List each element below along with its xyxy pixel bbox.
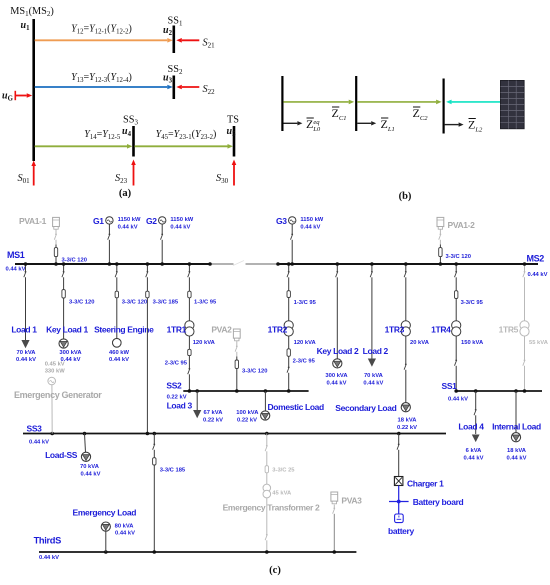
svg-text:0.44 kV: 0.44 kV [29,439,49,445]
svg-text:MS1: MS1 [7,250,25,260]
svg-text:Load 1: Load 1 [11,325,37,335]
svg-text:Steering Engine: Steering Engine [94,325,154,335]
svg-text:Key Load 1: Key Load 1 [46,325,88,335]
svg-text:3-3/C 185: 3-3/C 185 [153,300,179,306]
svg-text:120 kVA: 120 kVA [193,340,216,346]
svg-text:18 kVA: 18 kVA [398,417,418,423]
svg-text:120 kVA: 120 kVA [294,340,317,346]
svg-text:70 kVA: 70 kVA [364,373,384,379]
svg-text:Load 2: Load 2 [363,346,389,356]
svg-text:G3: G3 [276,216,287,226]
svg-text:100 kVA: 100 kVA [236,410,259,416]
svg-text:70 kVA: 70 kVA [80,464,100,470]
svg-text:0.44 kV: 0.44 kV [448,397,468,403]
svg-text:ThirdS: ThirdS [34,536,61,546]
svg-text:ZeqL0: ZeqL0 [306,117,321,133]
svg-text:battery: battery [388,526,415,536]
svg-text:Internal Load: Internal Load [492,422,541,432]
svg-text:1150 kW: 1150 kW [170,217,193,223]
svg-text:45 kVA: 45 kVA [272,491,292,497]
svg-text:SS2: SS2 [166,381,182,391]
svg-text:0.44 kV: 0.44 kV [327,380,347,386]
svg-text:0.44 kV: 0.44 kV [300,225,320,231]
svg-text:Load 4: Load 4 [458,422,484,432]
svg-text:Secondary Load: Secondary Load [335,403,396,413]
svg-text:0.44 kV: 0.44 kV [507,455,527,461]
svg-text:Emergency Generator: Emergency Generator [14,390,102,400]
svg-text:3-3/C 120: 3-3/C 120 [69,300,94,306]
svg-text:20 kVA: 20 kVA [410,340,430,346]
svg-text:PVA3: PVA3 [341,496,362,506]
svg-text:1TR4: 1TR4 [431,325,451,335]
svg-text:Key Load 2: Key Load 2 [317,346,359,356]
svg-text:0.44 kV: 0.44 kV [109,357,129,363]
svg-text:3-3/C 120: 3-3/C 120 [242,369,267,375]
svg-text:Battery board: Battery board [413,497,464,507]
svg-text:1TR5: 1TR5 [499,325,519,335]
svg-text:2-3/C 95: 2-3/C 95 [165,361,188,367]
svg-text:(a): (a) [119,188,132,199]
svg-text:Emergency Load: Emergency Load [73,507,137,517]
svg-text:3-3/C 120: 3-3/C 120 [62,258,87,264]
svg-text:460 kW: 460 kW [109,350,130,356]
svg-text:G2: G2 [146,216,157,226]
svg-text:1-3/C 95: 1-3/C 95 [294,300,317,306]
svg-text:1TR3: 1TR3 [385,325,405,335]
svg-text:1-3/C 95: 1-3/C 95 [194,300,217,306]
svg-text:1150 kW: 1150 kW [300,217,323,223]
svg-text:300 kVA: 300 kVA [325,373,348,379]
svg-text:TS: TS [227,115,239,126]
svg-text:3-3/C 95: 3-3/C 95 [461,300,484,306]
svg-text:18 kVA: 18 kVA [507,448,527,454]
svg-text:(c): (c) [269,565,281,576]
svg-text:0.44 kV: 0.44 kV [363,380,383,386]
svg-text:Domestic Load: Domestic Load [268,402,325,412]
svg-text:0.44 kV: 0.44 kV [16,357,36,363]
svg-text:MS2: MS2 [527,254,545,264]
svg-text:PVA2: PVA2 [211,325,232,335]
svg-text:SS3: SS3 [27,424,43,434]
svg-text:0.44 kV: 0.44 kV [464,455,484,461]
svg-text:2-3/C 95: 2-3/C 95 [293,359,316,365]
svg-text:6 kVA: 6 kVA [466,448,482,454]
svg-text:0.22 kV: 0.22 kV [203,417,223,423]
svg-text:3-3/C 185: 3-3/C 185 [160,467,186,473]
svg-text:SS1: SS1 [442,381,458,391]
svg-text:3-3/C 120: 3-3/C 120 [122,300,147,306]
svg-text:0.22 kV: 0.22 kV [237,417,257,423]
svg-text:0.44 kV: 0.44 kV [115,530,135,536]
svg-text:0.44 kV: 0.44 kV [528,272,548,278]
svg-text:0.44 kV: 0.44 kV [81,471,101,477]
svg-text:3-3/C 120: 3-3/C 120 [446,254,471,260]
svg-text:3-3/C 25: 3-3/C 25 [272,467,295,473]
svg-text:0.45 kV: 0.45 kV [45,361,65,367]
svg-text:1TR2: 1TR2 [268,325,288,335]
svg-text:G1: G1 [93,216,104,226]
svg-text:67 kVA: 67 kVA [204,410,224,416]
svg-text:330 kW: 330 kW [45,368,66,374]
svg-text:55 kVA: 55 kVA [529,340,549,346]
svg-text:Charger 1: Charger 1 [407,478,444,488]
svg-text:0.22 kV: 0.22 kV [397,425,417,431]
svg-text:Emergency Transformer 2: Emergency Transformer 2 [223,502,320,512]
svg-text:1TR1: 1TR1 [167,325,187,335]
svg-text:0.44 kV: 0.44 kV [6,267,26,273]
svg-text:Load 3: Load 3 [167,400,193,410]
svg-text:0.44 kV: 0.44 kV [118,225,138,231]
svg-text:70 kVA: 70 kVA [17,350,37,356]
svg-text:0.44 kV: 0.44 kV [39,555,59,561]
svg-text:PVA1-1: PVA1-1 [19,216,47,226]
svg-text:80 kVA: 80 kVA [115,523,135,529]
svg-text:(b): (b) [399,191,412,202]
svg-text:0.44 kV: 0.44 kV [170,225,190,231]
svg-text:150 kVA: 150 kVA [461,340,484,346]
svg-text:1150 kW: 1150 kW [118,217,141,223]
svg-text:300 kVA: 300 kVA [59,350,82,356]
svg-text:PVA1-2: PVA1-2 [448,220,476,230]
svg-text:Load-SS: Load-SS [45,450,78,460]
